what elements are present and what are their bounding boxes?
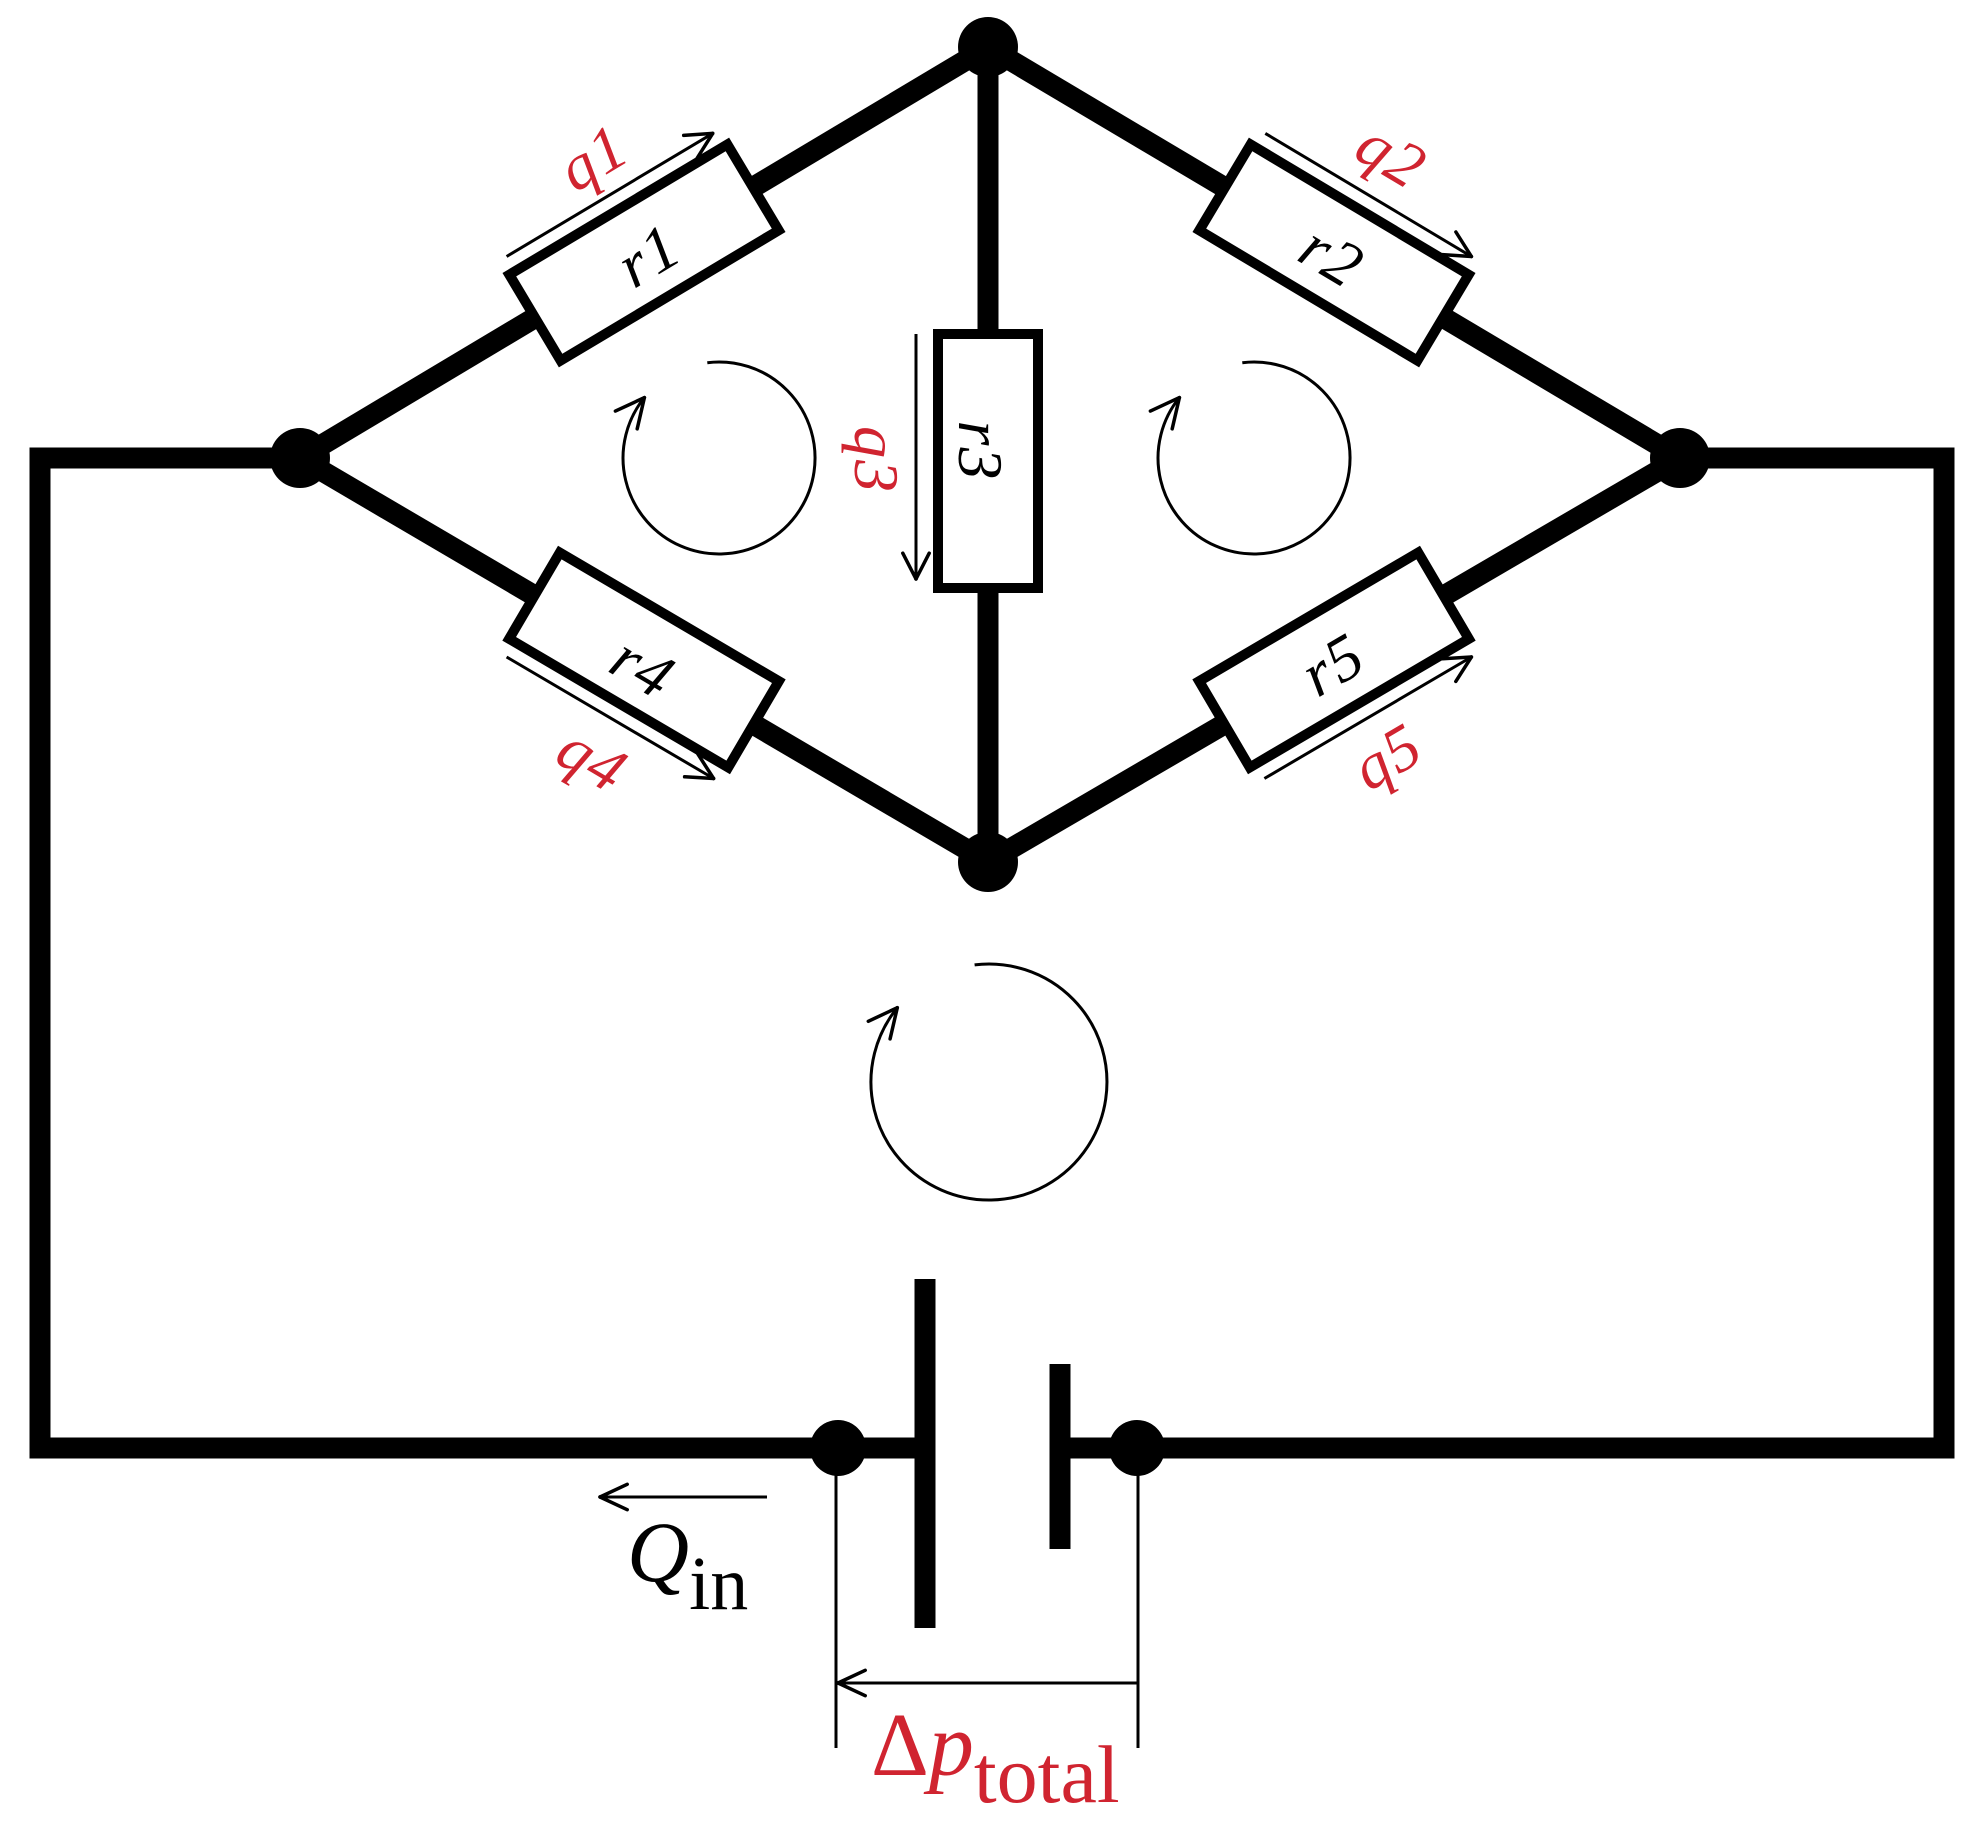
svg-text:q3: q3	[841, 426, 912, 494]
svg-text:r3: r3	[945, 421, 1016, 482]
